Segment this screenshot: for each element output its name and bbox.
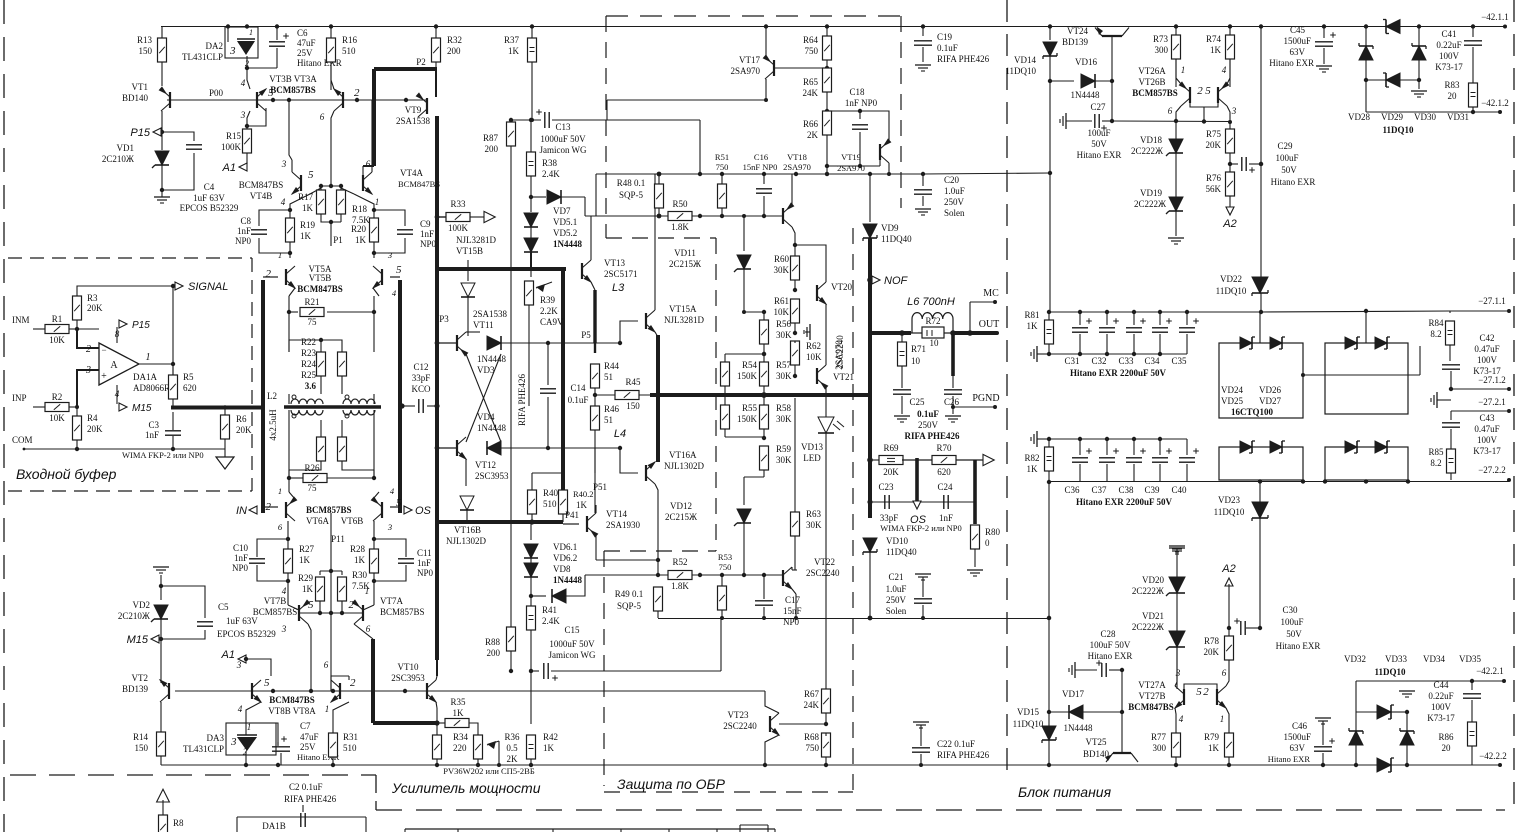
svg-text:VT27A: VT27A	[1138, 680, 1166, 690]
ground under bridge	[1418, 80, 1420, 89]
capacitor C45	[1322, 24, 1326, 28]
resistor R46	[591, 406, 600, 430]
wire: top rail entry to R13	[160, 26, 162, 28]
svg-text:R86: R86	[1438, 732, 1454, 742]
sheet right dashed border	[1513, 0, 1515, 808]
wire: VT15A base from P5	[620, 321, 638, 343]
svg-text:C12: C12	[413, 362, 428, 372]
svg-text:3: 3	[230, 736, 237, 748]
svg-text:R18: R18	[352, 204, 368, 214]
svg-text:4: 4	[282, 586, 287, 596]
svg-text:DA1B: DA1B	[262, 821, 286, 831]
svg-text:R55: R55	[742, 403, 758, 413]
svg-text:1000uF 50V: 1000uF 50V	[540, 134, 586, 144]
svg-text:R81: R81	[1024, 310, 1039, 320]
capacitors C31-C35	[1078, 310, 1082, 314]
rectifier block 4 (bottom right)	[1325, 447, 1408, 480]
svg-text:1.8K: 1.8K	[671, 581, 689, 591]
svg-text:VT23: VT23	[728, 710, 749, 720]
svg-text:VT4A: VT4A	[400, 168, 423, 178]
resistor R23/R25 body upper-right	[338, 352, 347, 376]
svg-text:R19: R19	[300, 220, 316, 230]
svg-text:M15: M15	[127, 634, 149, 646]
svg-text:33pF: 33pF	[412, 373, 431, 383]
svg-text:SQP-5: SQP-5	[619, 190, 644, 200]
svg-text:−42.2.1: −42.2.1	[1476, 666, 1504, 676]
ground mid PSU	[1176, 482, 1178, 543]
capacitor C20	[921, 172, 925, 176]
svg-text:C27: C27	[1090, 102, 1106, 112]
resistor R14	[157, 732, 166, 756]
svg-text:1: 1	[146, 352, 151, 363]
resistor R81	[1045, 320, 1054, 344]
svg-text:16CTQ100: 16CTQ100	[1231, 407, 1274, 417]
svg-text:R6: R6	[236, 414, 247, 424]
svg-text:P2: P2	[416, 57, 426, 67]
svg-text:R35: R35	[450, 697, 466, 707]
capacitor C5 branch	[161, 586, 205, 618]
svg-text:C37: C37	[1091, 485, 1107, 495]
wire: R2 to opamp noninv	[76, 407, 78, 418]
wire: VT5B base	[263, 276, 278, 278]
wire: VT23 emitter to bottom rail	[765, 735, 779, 765]
svg-text:VT20: VT20	[831, 282, 852, 292]
svg-text:30K: 30K	[776, 371, 792, 381]
svg-text:100uF 50V: 100uF 50V	[1090, 640, 1131, 650]
wire: VT15A collector up	[654, 240, 656, 310]
terminal -27.2.2	[1507, 478, 1511, 482]
svg-text:VT18: VT18	[787, 152, 807, 162]
svg-text:RIFA PHE426: RIFA PHE426	[937, 54, 990, 64]
svg-text:SQP-5: SQP-5	[617, 601, 642, 611]
svg-text:1: 1	[278, 486, 282, 496]
svg-text:DA2: DA2	[206, 41, 224, 51]
svg-text:VT25: VT25	[1086, 737, 1107, 747]
resistor R3	[73, 296, 82, 320]
transistor VT17 2SA970	[773, 60, 775, 76]
wire: VT2 collector to R14	[160, 702, 162, 734]
wire: VT7A collector thick down	[354, 624, 373, 639]
resistor R77	[1172, 733, 1181, 757]
wire: OS bus thick	[398, 280, 402, 513]
resistor R76	[1226, 172, 1235, 196]
svg-text:2SA1930: 2SA1930	[606, 520, 641, 530]
wire: VT16A emitter down	[655, 484, 658, 575]
resistor R62	[791, 341, 800, 365]
svg-text:A1: A1	[221, 649, 235, 661]
svg-text:1K: 1K	[508, 46, 520, 56]
resistor R42	[530, 671, 532, 724]
svg-text:5: 5	[264, 677, 270, 689]
svg-text:6: 6	[324, 660, 329, 670]
svg-text:P5: P5	[581, 330, 591, 340]
wire: VT7B emitter up	[288, 605, 299, 610]
svg-text:R54: R54	[742, 360, 758, 370]
svg-text:C4: C4	[204, 182, 215, 192]
svg-text:150: 150	[626, 401, 640, 411]
diode VD33 (top)	[1355, 681, 1357, 712]
wire: VT26 bases joined	[1190, 103, 1218, 107]
resistor R57	[760, 362, 769, 386]
TL431 DA3	[226, 723, 276, 755]
svg-text:NOF: NOF	[884, 275, 909, 287]
svg-text:LED: LED	[803, 453, 821, 463]
terminal -42.1.1	[1503, 25, 1507, 29]
diode VD34 (right)	[1400, 731, 1414, 745]
svg-text:R44: R44	[604, 361, 620, 371]
svg-text:C46: C46	[1292, 721, 1308, 731]
svg-text:2SA970: 2SA970	[834, 340, 844, 370]
svg-text:VD29: VD29	[1381, 112, 1403, 122]
ground under VD19	[1168, 237, 1184, 239]
terminal -27.1.1	[1507, 309, 1511, 313]
wire: VT27B collector to R78	[1226, 660, 1229, 686]
wire: VT20 collector up	[795, 245, 826, 282]
svg-text:R79: R79	[1204, 732, 1220, 742]
svg-text:0: 0	[985, 538, 990, 548]
svg-text:5: 5	[1196, 686, 1202, 698]
wire: P11 to R29 R30 tops	[320, 570, 342, 572]
wire: VT27B emitter down	[1226, 708, 1229, 734]
resistor R71	[901, 333, 903, 342]
wire: R50 rail y216	[585, 215, 783, 217]
capacitor C22	[913, 721, 929, 723]
svg-text:R36: R36	[504, 732, 520, 742]
svg-text:VD28: VD28	[1348, 112, 1370, 122]
svg-text:R22: R22	[301, 337, 316, 347]
wire: P00 rail	[167, 99, 427, 101]
svg-text:2: 2	[354, 87, 360, 99]
capacitor C26	[944, 389, 962, 391]
svg-text:2SC3953: 2SC3953	[391, 673, 425, 683]
svg-text:510: 510	[343, 743, 357, 753]
wire: VT3A collector down	[331, 111, 334, 186]
svg-text:VT27B: VT27B	[1139, 691, 1166, 701]
svg-text:0.47uF: 0.47uF	[1474, 344, 1499, 354]
svg-text:R4: R4	[87, 413, 98, 423]
wire: emitter row R17 R18	[310, 188, 321, 194]
thermal diode VT16B	[460, 496, 474, 510]
wire: opamp out	[139, 363, 173, 365]
svg-text:10K: 10K	[806, 352, 822, 362]
svg-text:1N4448: 1N4448	[477, 354, 506, 364]
svg-text:R39: R39	[540, 295, 556, 305]
svg-text:TL431CLP: TL431CLP	[182, 52, 223, 62]
ground under C25	[894, 415, 910, 417]
svg-text:VT26B: VT26B	[1139, 77, 1166, 87]
transistor VT8A	[339, 683, 341, 699]
svg-text:6: 6	[366, 624, 371, 634]
svg-text:VT15B: VT15B	[456, 246, 483, 256]
wire: inv input	[77, 329, 99, 348]
zener VD21	[1169, 631, 1185, 647]
svg-text:C38: C38	[1118, 485, 1134, 495]
resistor R32	[434, 24, 438, 28]
svg-text:750: 750	[719, 562, 732, 572]
svg-text:1nF: 1nF	[237, 226, 251, 236]
svg-text:10: 10	[930, 338, 940, 348]
diode VD8	[531, 595, 546, 597]
svg-text:R40.2: R40.2	[573, 489, 594, 499]
svg-text:C32: C32	[1091, 356, 1106, 366]
svg-text:10: 10	[911, 356, 921, 366]
wire: lower mid rail (protection to PSU)	[658, 618, 1049, 620]
transistor VT26B	[1217, 87, 1219, 103]
transistor VT20 2SC2240	[816, 285, 818, 301]
svg-text:R50: R50	[672, 199, 688, 209]
svg-text:1N4448: 1N4448	[1064, 723, 1093, 733]
diode VD3	[466, 331, 480, 333]
svg-text:15nF: 15nF	[783, 606, 802, 616]
svg-text:R71: R71	[911, 344, 926, 354]
wire: VT8 emitters to DA3/R31	[246, 702, 261, 723]
resistor R30	[338, 577, 347, 601]
svg-text:R83: R83	[1444, 80, 1460, 90]
transistor VT18 2SA970	[782, 208, 784, 224]
svg-text:VD11: VD11	[674, 248, 696, 258]
svg-text:C43: C43	[1479, 413, 1495, 423]
svg-text:33pF: 33pF	[880, 513, 899, 523]
transistor VT23 2SC2240	[769, 716, 771, 732]
svg-text:VT5B: VT5B	[309, 273, 332, 283]
svg-text:C28: C28	[1100, 629, 1116, 639]
svg-text:VT4B: VT4B	[250, 191, 273, 201]
svg-text:INM: INM	[12, 315, 30, 325]
resistor R45	[595, 394, 615, 396]
svg-text:50V: 50V	[1091, 139, 1107, 149]
svg-text:C10: C10	[233, 543, 249, 553]
transistor VT4A	[362, 175, 364, 191]
svg-text:1: 1	[1181, 65, 1186, 75]
wire: R82 column	[1036, 431, 1038, 447]
zener VD18	[1175, 121, 1177, 139]
svg-text:BCM847BS: BCM847BS	[297, 284, 343, 294]
diodes VD5.1 VD5.2	[530, 197, 532, 212]
svg-text:0.1uF: 0.1uF	[937, 43, 958, 53]
svg-text:2K: 2K	[807, 130, 819, 140]
wire: VT19 base link	[860, 111, 889, 141]
TL431 DA2	[225, 27, 258, 58]
svg-text:75: 75	[308, 483, 318, 493]
svg-text:3: 3	[387, 522, 392, 532]
svg-text:1uF 63V: 1uF 63V	[226, 616, 258, 626]
diode VD16 1N4448	[1050, 80, 1074, 82]
wire: opamp vee pin4 to M15	[116, 385, 118, 404]
resistor R65	[823, 68, 832, 92]
wire: VD5.2 to thick drive bus	[530, 252, 532, 269]
svg-text:1500uF: 1500uF	[1283, 36, 1311, 46]
wire: VT24 base down	[1111, 36, 1113, 81]
capacitor C41	[1471, 24, 1475, 28]
wire: A1 to VT8B collector	[246, 659, 271, 676]
resistor R39 (CA9V)	[530, 269, 532, 277]
wire: VT10 collector up to thick bus	[436, 676, 437, 680]
svg-text:INP: INP	[12, 393, 27, 403]
svg-text:300: 300	[1155, 45, 1169, 55]
wire: VT4A base from P2 bus	[362, 166, 364, 175]
wire: signal to R5	[172, 286, 174, 375]
resistor R85	[1447, 449, 1456, 473]
svg-text:0.5: 0.5	[506, 743, 518, 753]
svg-text:MC: MC	[983, 288, 999, 299]
svg-text:C30: C30	[1282, 605, 1298, 615]
svg-text:C34: C34	[1144, 356, 1160, 366]
svg-text:VD17: VD17	[1062, 689, 1084, 699]
wire: VT4A collector up	[371, 100, 373, 172]
wire: upper mid rail y174	[596, 173, 923, 175]
svg-text:75: 75	[308, 317, 318, 327]
svg-text:0.47uF: 0.47uF	[1474, 424, 1499, 434]
wire: top link to VT17 collector	[607, 99, 766, 101]
capacitor C44	[1471, 681, 1473, 690]
svg-text:1000uF 50V: 1000uF 50V	[549, 639, 595, 649]
svg-text:R1: R1	[52, 314, 63, 324]
svg-text:R16: R16	[342, 35, 358, 45]
svg-text:R27: R27	[299, 544, 315, 554]
svg-text:VT15A: VT15A	[669, 304, 697, 314]
svg-text:C23: C23	[878, 482, 894, 492]
transistor VT13 2SC5171	[581, 263, 583, 279]
capacitor C6	[275, 24, 279, 28]
resistor R21	[300, 308, 324, 317]
svg-text:VD1: VD1	[117, 143, 135, 153]
svg-text:1K: 1K	[300, 231, 312, 241]
svg-text:R34: R34	[453, 732, 469, 742]
transistor VT6B	[381, 502, 383, 518]
svg-text:DA1A: DA1A	[133, 372, 157, 382]
resistor R44	[594, 343, 596, 353]
svg-text:20K: 20K	[1204, 647, 1220, 657]
svg-text:1nF: 1nF	[417, 558, 431, 568]
transistor VT5A (right)	[381, 269, 383, 285]
svg-text:100V: 100V	[1477, 435, 1498, 445]
arrow out of R70	[983, 454, 994, 465]
svg-text:Входной буфер: Входной буфер	[16, 466, 117, 482]
svg-text:R24: R24	[301, 359, 317, 369]
svg-text:R77: R77	[1151, 732, 1167, 742]
svg-text:R17: R17	[298, 192, 314, 202]
transistor VT2 BD139	[168, 683, 170, 699]
terminal OUT	[995, 331, 999, 335]
svg-text:−27.2.2: −27.2.2	[1478, 465, 1506, 475]
rectifier block 3 (bottom left)	[1219, 447, 1303, 480]
transistor VT9 2SA1538	[426, 98, 428, 114]
svg-text:1N4448: 1N4448	[1071, 90, 1100, 100]
transistor VT1 BD140	[161, 62, 163, 86]
wire: C28 node	[1120, 668, 1124, 672]
capacitor C13	[511, 119, 541, 121]
diodes on block1 top	[1240, 337, 1252, 349]
svg-text:2: 2	[1197, 85, 1203, 97]
wire: VT3A emitter	[331, 62, 334, 89]
svg-text:VD33: VD33	[1385, 654, 1407, 664]
svg-text:100uF: 100uF	[1280, 617, 1303, 627]
svg-text:C21: C21	[888, 572, 903, 582]
svg-text:Hitano EXR: Hitano EXR	[1268, 754, 1311, 764]
transformer L2 lower windings	[291, 410, 323, 415]
resistor R19	[290, 194, 310, 218]
svg-text:250V: 250V	[886, 595, 907, 605]
svg-text:VT22: VT22	[814, 557, 835, 567]
wire: VT23 collector rail	[427, 690, 765, 692]
zener VD1	[161, 132, 163, 150]
wire: VT27A collector from VD21	[1175, 647, 1177, 686]
svg-text:1N4448: 1N4448	[553, 575, 582, 585]
resistor R88	[510, 146, 512, 627]
capacitor C8	[259, 210, 290, 226]
svg-text:1K: 1K	[355, 235, 367, 245]
resistor R15	[246, 126, 248, 129]
wire: VT16A base	[620, 448, 638, 473]
svg-text:VT19: VT19	[841, 152, 861, 162]
svg-text:200: 200	[487, 648, 501, 658]
svg-text:R74: R74	[1206, 34, 1222, 44]
svg-text:VT13: VT13	[604, 258, 625, 268]
svg-text:2C222Ж: 2C222Ж	[1131, 146, 1164, 156]
svg-text:Hitano EXR: Hitano EXR	[1077, 150, 1122, 160]
wire: VD12 bottom to R59	[744, 476, 764, 478]
svg-text:1.0uF: 1.0uF	[886, 584, 907, 594]
wire: P5 row	[546, 341, 550, 345]
svg-text:4: 4	[1179, 714, 1184, 724]
svg-text:RIFA PHE426: RIFA PHE426	[904, 431, 960, 441]
svg-text:150K: 150K	[737, 371, 758, 381]
svg-text:2C215Ж: 2C215Ж	[665, 512, 698, 522]
svg-text:510: 510	[342, 46, 356, 56]
svg-text:63V: 63V	[1290, 47, 1306, 57]
resistor R6	[221, 415, 230, 439]
resistor R58	[763, 395, 765, 407]
wire: SIGNAL net	[77, 286, 173, 296]
svg-text:R59: R59	[776, 444, 792, 454]
svg-text:1nF: 1nF	[234, 553, 248, 563]
svg-text:2SC2240: 2SC2240	[806, 568, 840, 578]
wire: bottom supply rail	[161, 764, 1500, 766]
svg-text:−: −	[101, 345, 106, 355]
svg-text:2K: 2K	[507, 754, 519, 764]
svg-text:−42.1.2: −42.1.2	[1481, 98, 1509, 108]
svg-text:3: 3	[236, 660, 242, 670]
svg-text:RIFA PHE426: RIFA PHE426	[937, 750, 990, 760]
svg-text:620: 620	[183, 383, 197, 393]
wire: R17 R18 to P1	[321, 214, 341, 222]
svg-text:C33: C33	[1118, 356, 1134, 366]
svg-text:R73: R73	[1153, 34, 1169, 44]
svg-text:VT6A: VT6A	[306, 516, 329, 526]
wire: R82 down to lower rail	[1048, 482, 1050, 618]
svg-text:VD6.2: VD6.2	[553, 553, 577, 563]
wire: VT3B emitter to C6 node	[247, 68, 250, 89]
svg-text:5: 5	[1205, 85, 1211, 97]
resistor R29	[316, 577, 325, 601]
svg-text:3: 3	[281, 159, 287, 169]
resistor R27	[287, 521, 289, 539]
capacitor C3	[165, 430, 181, 432]
svg-text:−42.2.2: −42.2.2	[1479, 751, 1507, 761]
wire: VT22 collector up	[791, 567, 793, 570]
svg-text:11DQ10: 11DQ10	[1382, 125, 1414, 135]
svg-text:VD23: VD23	[1218, 495, 1240, 505]
resistor R36 (trimmer)	[474, 735, 483, 759]
svg-text:11DQ40: 11DQ40	[886, 547, 917, 557]
svg-text:10K: 10K	[49, 335, 65, 345]
resistor R50	[668, 212, 692, 221]
svg-text:1nF: 1nF	[145, 430, 159, 440]
svg-text:NJL1302D: NJL1302D	[664, 461, 704, 471]
svg-text:VD2: VD2	[133, 600, 151, 610]
capacitor C10	[286, 537, 290, 541]
svg-text:1K: 1K	[543, 743, 555, 753]
